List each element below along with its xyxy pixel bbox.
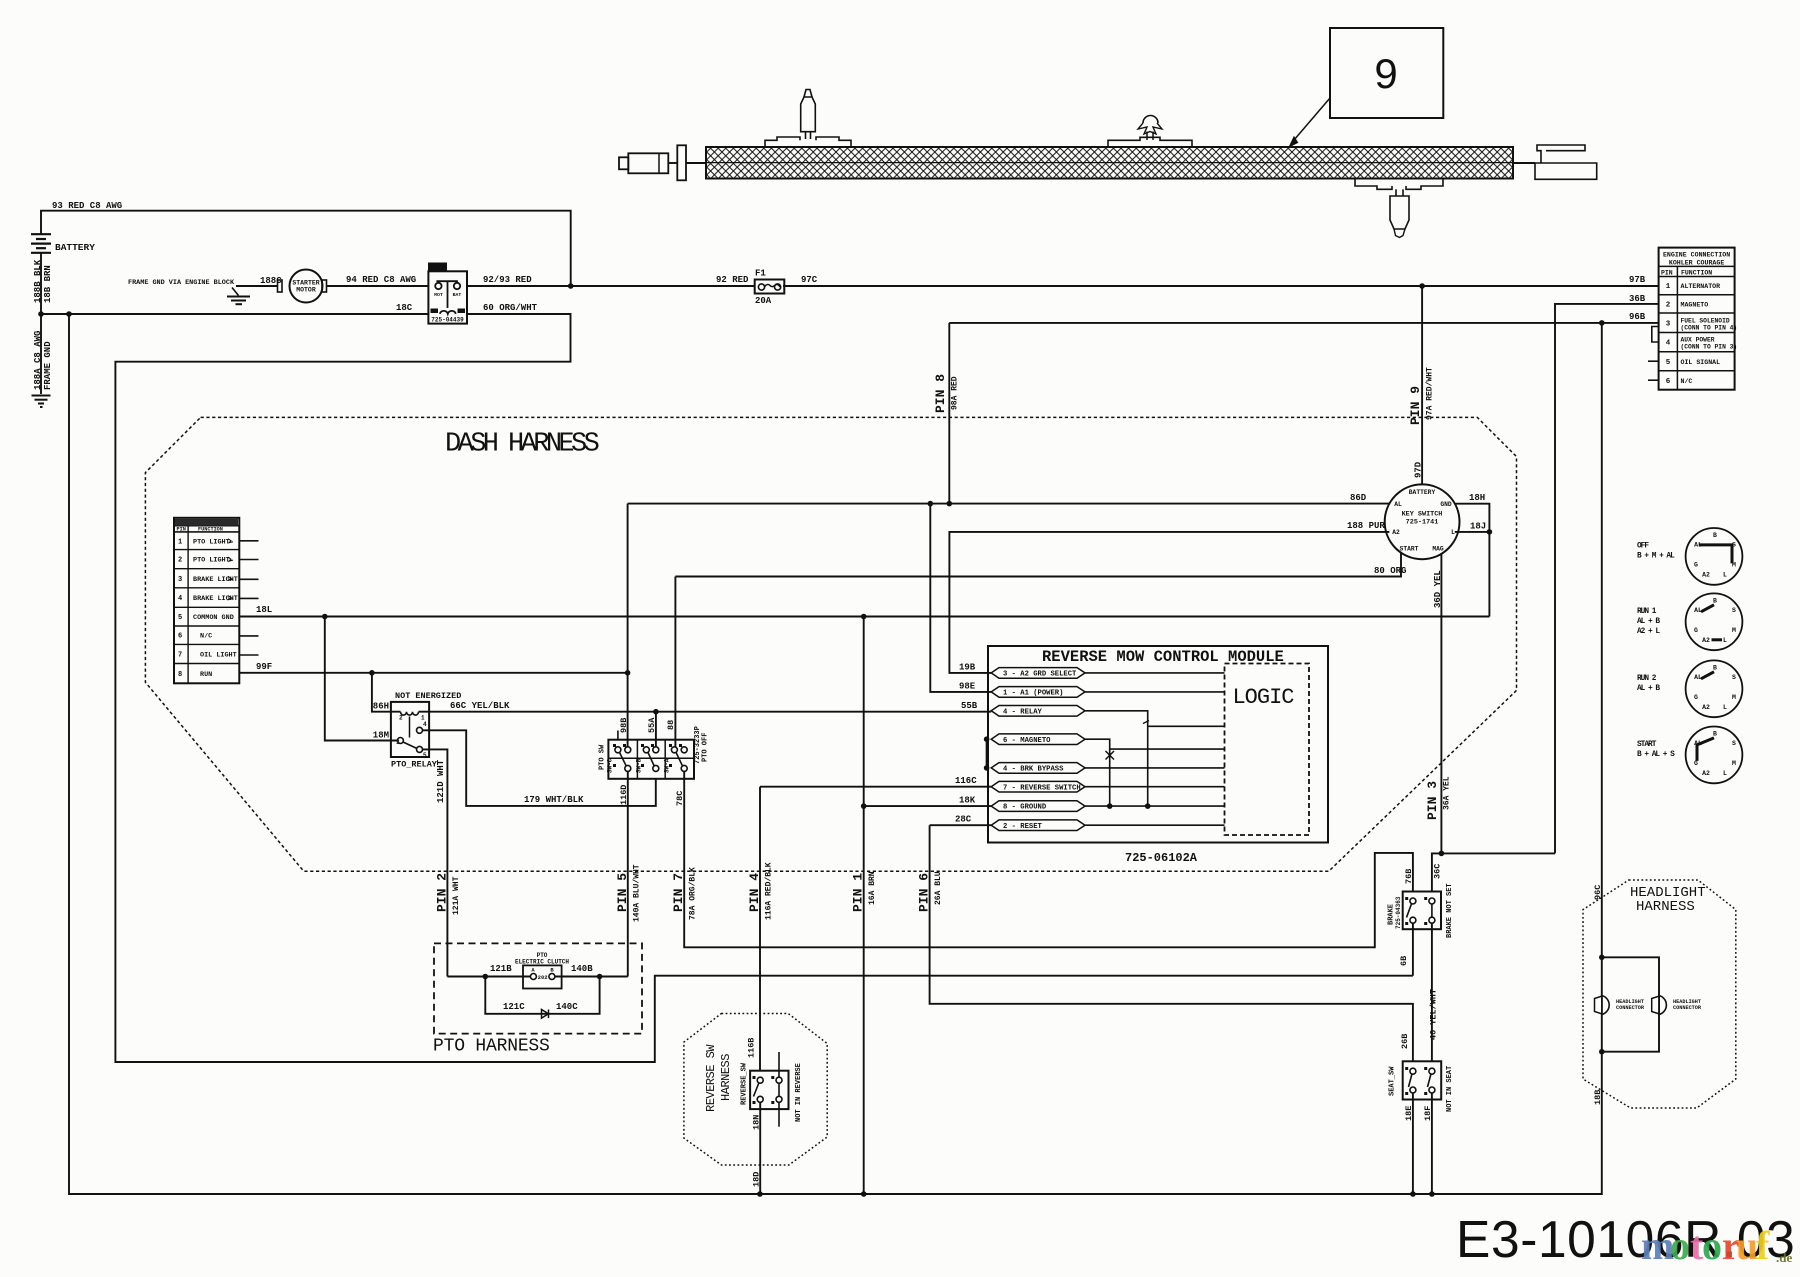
pto switch stub (617, 731, 619, 740)
svg-text:RUN 2: RUN 2 (1637, 675, 1657, 683)
svg-text:97D: 97D (1414, 461, 1424, 478)
svg-text:B: B (1713, 532, 1717, 539)
svg-text:121D WHT: 121D WHT (436, 759, 446, 803)
svg-text:PIN: PIN (177, 526, 186, 532)
dash harness boundary octagon (145, 417, 1516, 871)
wire 18H key GND to ground bus (1455, 504, 1490, 617)
svg-text:78A ORG/BLK: 78A ORG/BLK (689, 867, 698, 920)
relay PTO_RELAY (391, 702, 429, 757)
wire 98B power into PTO switch (627, 673, 629, 747)
svg-text:80 ORG: 80 ORG (1374, 566, 1406, 576)
svg-text:3 - A2 GRD SELECT: 3 - A2 GRD SELECT (1003, 671, 1077, 679)
leader line to callout 9 (1291, 98, 1330, 144)
svg-text:3: 3 (396, 739, 400, 746)
svg-text:725-04363: 725-04363 (1395, 896, 1402, 929)
svg-text:PTO OFF: PTO OFF (702, 733, 710, 762)
svg-text:CONNECTOR: CONNECTOR (1673, 1005, 1702, 1011)
wire 121C / 140C clutch diode loop (485, 977, 599, 1014)
svg-text:REVERSE MOW CONTROL MODULE: REVERSE MOW CONTROL MODULE (1042, 648, 1284, 666)
svg-text:ELECTRIC CLUTCH: ELECTRIC CLUTCH (515, 959, 569, 966)
svg-text:RUN: RUN (200, 671, 212, 679)
svg-text:78C: 78C (675, 791, 685, 806)
node key switch battery tap (1419, 283, 1425, 289)
svg-text:L: L (1723, 637, 1727, 644)
svg-text:PTO SW: PTO SW (599, 744, 607, 770)
svg-text:18B: 18B (1593, 1090, 1603, 1105)
harness left end connector (619, 157, 628, 169)
headlight connector left (1595, 996, 1602, 1014)
logic block (1225, 664, 1310, 836)
svg-text:4: 4 (1666, 340, 1671, 348)
svg-text:STARTER: STARTER (292, 280, 319, 287)
wire 18F seat to ground bus (1431, 1093, 1433, 1194)
svg-text:PTO LIGHT: PTO LIGHT (193, 538, 230, 546)
svg-text:94 RED C8 AWG: 94 RED C8 AWG (346, 275, 416, 285)
svg-text:6: 6 (178, 633, 182, 641)
svg-text:116A RED/BLK: 116A RED/BLK (765, 862, 774, 920)
svg-text:93 RED C8 AWG: 93 RED C8 AWG (52, 201, 122, 211)
harness bullet clip (801, 97, 816, 132)
svg-text:RUN 1: RUN 1 (1637, 608, 1657, 616)
svg-text:ALTERNATOR: ALTERNATOR (1681, 283, 1721, 290)
svg-text:M: M (1732, 627, 1736, 634)
module connector flag 1 - A1 (POWER) (991, 687, 1085, 698)
svg-text:SEAT_SW: SEAT_SW (1389, 1066, 1397, 1096)
wire main ground bus bottom (69, 314, 1602, 1194)
wire 94 RED C8 AWG motor to solenoid (327, 285, 429, 287)
svg-text:36C: 36C (1433, 864, 1443, 879)
wire 98E module A1 flag feed (930, 504, 991, 692)
svg-text:o: o (1670, 1223, 1690, 1268)
svg-text:9: 9 (1374, 50, 1397, 97)
svg-text:OIL SIGNAL: OIL SIGNAL (1681, 359, 1721, 366)
wire 121B clutch feed (447, 976, 530, 978)
svg-text:97C: 97C (801, 275, 818, 285)
svg-text:S: S (1732, 607, 1736, 614)
svg-text:G: G (1694, 627, 1698, 634)
callout box 9 (1330, 28, 1443, 118)
svg-text:G: G (1694, 760, 1698, 767)
svg-text:FUEL SOLENOID: FUEL SOLENOID (1681, 317, 1730, 324)
switch BRAKE 725-04363 (1403, 892, 1441, 930)
svg-text:18K: 18K (959, 796, 976, 806)
wire 66C YEL/BLK relay coil to module relay flag 55B (419, 711, 992, 713)
svg-text:MAGNETO: MAGNETO (1681, 301, 1709, 308)
wire 92/93 RED solenoid to fuse (467, 285, 755, 287)
reverse sw harness boundary octagon (684, 1014, 827, 1166)
svg-text:4: 4 (423, 721, 427, 728)
switch REVERSE_SW (750, 1071, 788, 1109)
engine table pin5 stub (1648, 360, 1659, 362)
svg-text:PIN 2: PIN 2 (435, 873, 450, 912)
svg-text:18E: 18E (1404, 1106, 1414, 1121)
svg-text:REVERSE_SW: REVERSE_SW (741, 1062, 749, 1105)
svg-text:7 - REVERSE SWITCH: 7 - REVERSE SWITCH (1003, 784, 1081, 792)
module REVERSE MOW CONTROL MODULE 725-06102A (988, 646, 1328, 843)
svg-text:5: 5 (178, 614, 182, 622)
svg-text:F1: F1 (755, 269, 766, 279)
svg-text:26A BLU: 26A BLU (934, 871, 943, 905)
svg-text:5: 5 (423, 752, 427, 759)
key switch 725-1741 (1385, 484, 1460, 559)
svg-text:NOT IN SEAT: NOT IN SEAT (1446, 1066, 1454, 1112)
svg-text:A2: A2 (1392, 529, 1400, 536)
svg-text:PTO LIGHT: PTO LIGHT (193, 557, 230, 565)
svg-text:A2: A2 (1702, 770, 1710, 777)
svg-text:A2: A2 (1702, 637, 1710, 644)
svg-text:18M: 18M (373, 731, 389, 741)
svg-text:.de: .de (1776, 1250, 1792, 1265)
svg-text:BRAKE NOT SET: BRAKE NOT SET (1446, 883, 1454, 938)
svg-text:FRAME GND: FRAME GND (43, 341, 53, 390)
clutch PTO ELECTRIC CLUTCH (523, 965, 562, 988)
wire 18K ground flag tap (864, 805, 992, 807)
svg-text:f: f (1756, 1223, 1770, 1268)
svg-text:FUNCTION: FUNCTION (1681, 269, 1712, 276)
ground engine block symbol (232, 288, 239, 296)
svg-text:140B: 140B (571, 964, 593, 974)
switch SEAT_SW (1403, 1061, 1442, 1099)
node solenoid feed junction (568, 283, 574, 289)
svg-text:OFF: OFF (1637, 542, 1649, 550)
svg-text:N/C: N/C (200, 633, 212, 641)
svg-text:140A BLU/WHT: 140A BLU/WHT (633, 864, 642, 922)
wire 18M hour meter gnd to relay (325, 617, 397, 741)
wire 179 WHT/BLK relay NO to PTO switch (423, 730, 656, 806)
svg-text:6: 6 (1666, 378, 1671, 386)
svg-text:HARNESS: HARNESS (719, 1054, 733, 1101)
svg-text:55A: 55A (647, 717, 657, 733)
svg-text:2: 2 (178, 557, 182, 565)
svg-text:188 PUR: 188 PUR (1347, 521, 1385, 531)
svg-text:NOT IN REVERSE: NOT IN REVERSE (795, 1063, 803, 1122)
svg-text:B: B (1713, 597, 1717, 604)
svg-text:18H: 18H (1469, 493, 1485, 503)
wire 28C reset flag to PIN 6 (930, 824, 992, 826)
wire 36D YEL key MAG to brake junction PIN 3 (1440, 554, 1442, 854)
svg-text:16A BRN: 16A BRN (868, 871, 877, 905)
svg-text:START: START (1400, 546, 1419, 553)
module connector flag 4 - BRK BYPASS (991, 763, 1085, 774)
svg-text:92/93 RED: 92/93 RED (483, 275, 532, 285)
svg-text:G: G (1694, 561, 1698, 568)
module connector flag 8 - GROUND (991, 801, 1085, 812)
module internal wiring to logic (1085, 672, 1225, 674)
svg-text:4 - BRK BYPASS: 4 - BRK BYPASS (1003, 766, 1064, 774)
svg-text:98A RED: 98A RED (951, 376, 960, 410)
svg-text:1: 1 (1666, 283, 1671, 291)
hour meter stub wires (239, 540, 258, 542)
harness tree clip (1143, 116, 1158, 123)
svg-text:3: 3 (1666, 320, 1671, 328)
svg-text:6 - MAGNETO: 6 - MAGNETO (1003, 737, 1051, 745)
svg-text:B: B (1713, 730, 1717, 737)
svg-text:88: 88 (666, 720, 676, 730)
svg-text:L: L (1723, 704, 1727, 711)
svg-text:PIN: PIN (1661, 269, 1673, 276)
wire 121D WHT relay NC to PTO clutch PIN 2 (423, 749, 448, 976)
svg-text:40 YEL/WHT: 40 YEL/WHT (1429, 989, 1439, 1040)
svg-text:8: 8 (178, 671, 182, 679)
svg-text:S: S (1732, 674, 1736, 681)
module connector flag 3 - A2 GRD SELECT (991, 668, 1085, 679)
svg-text:AUX POWER: AUX POWER (1681, 337, 1715, 344)
svg-text:36D YEL: 36D YEL (1433, 570, 1443, 608)
svg-text:76B: 76B (1404, 869, 1414, 884)
starter motor M1 (290, 270, 323, 303)
wire 86H run to relay coil (372, 673, 401, 712)
wire 88 start-lockout into PTO switch (674, 577, 676, 747)
wire 18J key L tap (1455, 531, 1490, 533)
svg-text:FRAME GND VIA ENGINE BLOCK: FRAME GND VIA ENGINE BLOCK (128, 279, 235, 287)
svg-text:B: B (1713, 664, 1717, 671)
wire 188B BLK / 18B BRN battery negative (40, 253, 42, 314)
svg-text:18F: 18F (1423, 1106, 1433, 1121)
svg-text:2 - RESET: 2 - RESET (1003, 823, 1043, 831)
svg-text:4: 4 (178, 595, 182, 603)
svg-text:116C: 116C (955, 776, 977, 786)
svg-text:PIN 4: PIN 4 (747, 873, 762, 912)
wire 60 ORG/WHT ground return loop (115, 314, 1413, 1062)
svg-text:8 - GROUND: 8 - GROUND (1003, 804, 1047, 812)
svg-text:BAT: BAT (453, 292, 462, 298)
svg-text:A2: A2 (1702, 571, 1710, 578)
svg-text:BATTERY: BATTERY (55, 242, 95, 253)
svg-text:COMMON GND: COMMON GND (193, 614, 234, 622)
watermark motoruf.de (1641, 1223, 1792, 1268)
wire 78C PTO switch to brake loop PIN 7 (684, 771, 1413, 947)
svg-text:86H: 86H (373, 702, 389, 712)
svg-text:1 - A1 (POWER): 1 - A1 (POWER) (1003, 690, 1063, 698)
svg-text:92 RED: 92 RED (716, 275, 749, 285)
svg-text:HARNESS: HARNESS (1636, 899, 1695, 915)
wire 80 ORG key START to PTO switch 88 (675, 553, 1401, 577)
svg-text:MAG: MAG (1432, 546, 1444, 553)
key position diagram OFF (1686, 528, 1743, 585)
hour meter connections table (174, 518, 239, 684)
wire 36C brake to magneto bus (1432, 853, 1555, 891)
svg-text:179 WHT/BLK: 179 WHT/BLK (524, 795, 584, 805)
headlight circuit loop (1599, 955, 1605, 961)
svg-text:18J: 18J (1470, 522, 1486, 532)
svg-text:96B: 96B (1629, 312, 1646, 322)
svg-text:36A YEL: 36A YEL (1443, 776, 1452, 810)
svg-text:98E: 98E (959, 682, 976, 692)
svg-text:18L: 18L (256, 605, 272, 615)
svg-text:28C: 28C (955, 815, 972, 825)
engine table pin3-pin4 external bracket (1652, 327, 1659, 343)
svg-text:86D: 86D (1350, 493, 1367, 503)
svg-text:7: 7 (178, 651, 182, 659)
svg-text:66C YEL/BLK: 66C YEL/BLK (450, 701, 510, 711)
svg-text:NOT ENERGIZED: NOT ENERGIZED (395, 691, 461, 701)
svg-text:CONNECTOR: CONNECTOR (1616, 1005, 1645, 1011)
svg-text:N/C: N/C (1681, 378, 1693, 385)
svg-text:116D: 116D (619, 785, 629, 805)
svg-text:A2: A2 (1702, 704, 1710, 711)
svg-text:FUNCTION: FUNCTION (198, 526, 223, 532)
svg-text:LOGIC: LOGIC (1232, 685, 1294, 710)
svg-text:18B BRN: 18B BRN (43, 265, 53, 303)
svg-text:o: o (1702, 1223, 1722, 1268)
svg-text:KOHLER COURAGE: KOHLER COURAGE (1669, 260, 1724, 267)
svg-text:PIN 5: PIN 5 (615, 873, 630, 912)
svg-text:DASH HARNESS: DASH HARNESS (445, 430, 599, 460)
wire 6B brake ground to loop (1412, 923, 1414, 976)
starter solenoid 725-04439 (428, 271, 467, 323)
diode D1 clutch suppression (542, 1010, 549, 1019)
wire 97C / 97B main feed to engine connector (783, 285, 1659, 287)
ground frame GND symbol (32, 395, 51, 397)
svg-text:AL + B: AL + B (1637, 685, 1660, 693)
svg-text:REVERSE SW: REVERSE SW (704, 1044, 718, 1112)
svg-text:S: S (1732, 740, 1736, 747)
svg-text:116B: 116B (747, 1038, 757, 1058)
wire 116A RED/BLK PIN 4 to reverse switch (759, 787, 761, 1071)
harness cable 9 (crosshatched loom) (706, 147, 1513, 179)
svg-text:1: 1 (178, 538, 182, 546)
module connector flag 2 - RESET (991, 820, 1085, 831)
svg-text:188A C8 AWG: 188A C8 AWG (33, 331, 43, 390)
node 96C tap junction (1599, 320, 1605, 326)
svg-text:18N: 18N (752, 1115, 762, 1130)
wire frame ground drop 188A C8 AWG (40, 314, 42, 394)
reverse sw stub (778, 1052, 780, 1077)
wire 116C reverse switch flag to PIN 4 (760, 786, 991, 788)
module connector flag 4 - RELAY (991, 706, 1085, 717)
svg-text:PIN 6: PIN 6 (917, 873, 932, 912)
svg-text:PIN 3: PIN 3 (1425, 781, 1440, 820)
svg-text:BATTERY: BATTERY (1409, 489, 1436, 496)
svg-text:AL + B: AL + B (1637, 618, 1660, 626)
wire 18C ground lead (41, 313, 428, 315)
svg-text:(CONN TO PIN 4): (CONN TO PIN 4) (1681, 324, 1738, 331)
switch PTO_SW 725-3233P (608, 740, 694, 779)
svg-text:PIN 7: PIN 7 (671, 873, 686, 912)
svg-text:36B: 36B (1629, 294, 1646, 304)
svg-text:121C: 121C (503, 1002, 525, 1012)
svg-text:5: 5 (1666, 359, 1671, 367)
wire 93 RED C8 AWG battery positive top run (41, 211, 571, 286)
svg-text:OIL LIGHT: OIL LIGHT (200, 651, 237, 659)
svg-text:PIN 8: PIN 8 (933, 374, 948, 413)
wire 40 YEL/WHT brake to seat switch (1431, 923, 1433, 1061)
pto harness boundary box (434, 943, 642, 1033)
svg-text:MOT: MOT (434, 292, 443, 298)
svg-text:97A RED/WHT: 97A RED/WHT (1426, 367, 1435, 420)
svg-text:u: u (1736, 1223, 1758, 1268)
svg-text:GND: GND (1440, 501, 1452, 508)
svg-text:B + M + AL: B + M + AL (1637, 552, 1675, 560)
wire 99F run bus (239, 672, 627, 674)
key position diagram RUN 2 (1686, 660, 1743, 717)
svg-text:725-04439: 725-04439 (431, 317, 464, 324)
wire 116D PTO switch to clutch PIN 5 (627, 771, 629, 976)
key position diagram RUN 1 (1686, 593, 1743, 650)
svg-text:202: 202 (538, 974, 548, 981)
svg-text:60 ORG/WHT: 60 ORG/WHT (483, 303, 538, 313)
svg-text:MOTOR: MOTOR (296, 287, 316, 294)
node 55A tap (653, 709, 659, 715)
svg-text:3: 3 (178, 576, 182, 584)
svg-text:20A: 20A (755, 296, 772, 306)
svg-text:121B: 121B (490, 964, 512, 974)
node battery negative junction (38, 311, 44, 317)
module connector flag 6 - MAGNETO (991, 734, 1085, 745)
svg-text:M: M (1732, 760, 1736, 767)
fuse F1 20A (755, 280, 785, 294)
svg-text:4 - RELAY: 4 - RELAY (1003, 708, 1043, 716)
svg-text:97B: 97B (1629, 275, 1646, 285)
wire 97D PIN 9 key switch battery feed (1421, 286, 1423, 484)
svg-text:SW-C: SW-C (607, 758, 614, 773)
svg-text:M: M (1732, 694, 1736, 701)
svg-text:99F: 99F (256, 662, 272, 672)
wire 26A BLU PIN 6 to seat switch 26B (930, 825, 1413, 1061)
key position diagram START (1686, 727, 1743, 784)
wire 140B clutch return (555, 976, 628, 978)
svg-text:26B: 26B (1400, 1034, 1410, 1049)
svg-text:PTO HARNESS: PTO HARNESS (433, 1037, 550, 1057)
svg-text:L: L (1723, 571, 1727, 578)
svg-text:140C: 140C (556, 1002, 578, 1012)
harness lower plug connector (1355, 178, 1392, 189)
svg-text:19B: 19B (959, 663, 976, 673)
svg-text:PTO_RELAY: PTO_RELAY (391, 760, 438, 770)
svg-text:6B: 6B (1399, 956, 1409, 966)
svg-text:2: 2 (1666, 301, 1671, 309)
module connector flag 7 - REVERSE SWITCH (991, 781, 1085, 792)
diode inside module (1106, 751, 1115, 760)
svg-text:START: START (1637, 741, 1657, 749)
svg-text:188B BLK: 188B BLK (33, 259, 43, 303)
wire 18E seat to ground bus (1412, 1093, 1414, 1194)
svg-text:121A WHT: 121A WHT (452, 876, 461, 915)
svg-text:B + AL + S: B + AL + S (1637, 751, 1675, 759)
battery B1 (31, 233, 51, 235)
svg-text:18C: 18C (396, 303, 413, 313)
wire engine block ground lead 188C (236, 285, 278, 287)
wire 98A RED PIN 8 feed (948, 323, 950, 504)
engine table pin6 stub (1648, 379, 1659, 381)
svg-text:PIN 1: PIN 1 (851, 873, 866, 912)
svg-text:18D: 18D (752, 1172, 762, 1187)
wire 86D key AL to dash feed (628, 503, 1390, 505)
svg-text:ENGINE CONNECTION: ENGINE CONNECTION (1663, 252, 1730, 259)
svg-text:725-1741: 725-1741 (1406, 519, 1439, 527)
svg-text:98B: 98B (619, 718, 629, 733)
svg-text:(CONN TO PIN 3): (CONN TO PIN 3) (1681, 344, 1738, 351)
headlight connector right (1652, 996, 1659, 1014)
svg-text:A2 + L: A2 + L (1637, 628, 1660, 636)
harness right end connector (1513, 162, 1535, 164)
svg-text:725-06102A: 725-06102A (1125, 851, 1198, 865)
headlight harness boundary octagon (1583, 880, 1736, 1108)
svg-text:2: 2 (399, 715, 403, 722)
svg-text:G: G (1694, 694, 1698, 701)
svg-text:55B: 55B (961, 701, 978, 711)
svg-text:PIN 9: PIN 9 (1408, 386, 1423, 425)
svg-text:L: L (1451, 529, 1455, 536)
svg-text:AL: AL (1394, 501, 1402, 508)
svg-text:188C: 188C (260, 276, 282, 286)
svg-text:L: L (1723, 770, 1727, 777)
wire 55A coil branch into PTO switch (655, 712, 657, 747)
engine connection table KOHLER COURAGE (1659, 248, 1735, 390)
wire 188 PUR key A2 to module A2 flag 19B (949, 532, 1389, 673)
wire module magneto to brk bypass link (986, 739, 988, 768)
svg-text:KEY SWITCH: KEY SWITCH (1402, 511, 1443, 519)
